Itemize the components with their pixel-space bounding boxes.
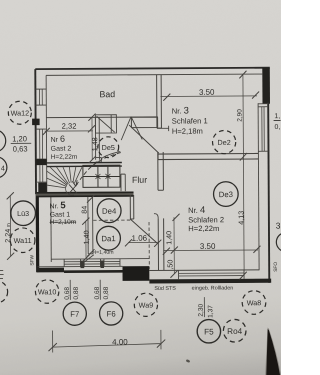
- svg-text:Wa9: Wa9: [139, 301, 154, 310]
- svg-text:4,13: 4,13: [236, 211, 245, 225]
- wall bottom-left middle line: [37, 265, 122, 268]
- wall pier black left 3: [38, 183, 47, 194]
- window right Schlafen1 glazing: [262, 107, 264, 152]
- wall left outer Gast1 thick: [36, 194, 40, 272]
- wall pier black left 1: [32, 119, 40, 126]
- svg-text:1,20: 1,20: [12, 134, 27, 143]
- svg-text:2,90: 2,90: [237, 109, 244, 122]
- circle F5: [197, 320, 221, 344]
- window left Gast2 glazing: [40, 129, 43, 159]
- chimney box: [83, 165, 120, 187]
- shaft box Bad: [95, 115, 116, 133]
- wall step black block bottom middle: [122, 266, 149, 281]
- dimension 1,40-50 chain: [173, 217, 175, 273]
- fraction line right: [274, 120, 281, 122]
- circle F6: [100, 302, 123, 325]
- wall Gast1 right: [88, 197, 93, 254]
- stair walk line dashed: [76, 153, 121, 187]
- svg-text:1,40: 1,40: [82, 230, 91, 244]
- svg-text:1,40: 1,40: [164, 231, 173, 245]
- wall bottom-right outer thick: [149, 279, 271, 284]
- window bottom Schlafen2 glazing: [179, 273, 245, 276]
- svg-text:0,88: 0,88: [103, 286, 110, 299]
- wall top-right corner block: [262, 68, 270, 104]
- svg-text:Süd STS: Süd STS: [154, 286, 176, 292]
- dimension 1,48 line: [91, 117, 93, 160]
- svg-text:,50: ,50: [165, 260, 174, 270]
- wall Schlafen2 left upper: [158, 152, 164, 190]
- tick right chain bottom: [240, 272, 247, 280]
- wall left inner Gast1: [50, 197, 52, 262]
- circle Wa9 dashed: [134, 293, 157, 316]
- circle Ro4 dashed: [223, 319, 246, 342]
- dimension 1.06 line: [128, 241, 158, 243]
- svg-text:H=2,22m: H=2,22m: [188, 224, 219, 233]
- circle De2 dashed: [212, 130, 235, 153]
- svg-text:Gast 2: Gast 2: [51, 146, 72, 153]
- svg-text:3.50: 3.50: [200, 242, 216, 251]
- svg-text:SFO: SFO: [273, 262, 279, 272]
- svg-text:3.50: 3.50: [199, 88, 215, 97]
- svg-text:F7: F7: [70, 310, 79, 319]
- wall right outer: [268, 102, 269, 283]
- window bottom Gast1 glazing: [64, 261, 120, 264]
- fraction line left: [11, 142, 31, 144]
- circle De5 dashed: [98, 137, 119, 158]
- door leaf Bad left: [121, 117, 131, 141]
- svg-text:Nr. 4: Nr. 4: [188, 205, 205, 216]
- tick right chain top: [239, 71, 246, 79]
- niche dashed lintel: [93, 219, 130, 221]
- circle Lue3: [11, 201, 36, 226]
- wall stair top band: [47, 163, 122, 167]
- svg-text:0,88: 0,88: [73, 287, 80, 300]
- chimney tick marks: [95, 174, 110, 179]
- window mullion blocks: [80, 261, 84, 269]
- wall top outer: [35, 68, 269, 69]
- leader H140 tick: [84, 255, 93, 262]
- wall Schlafen1-Schlafen2: [158, 153, 258, 159]
- niche diagonal: [130, 219, 158, 244]
- dimension 2,32 line: [45, 130, 93, 132]
- svg-text:Wa12: Wa12: [11, 108, 30, 117]
- circle Wa10 dashed: [35, 280, 59, 304]
- door leaf Schlafen1: [129, 125, 159, 153]
- circle Wa8 dashed: [242, 291, 266, 315]
- svg-text:De2: De2: [218, 138, 231, 147]
- svg-text:2,30: 2,30: [198, 303, 205, 316]
- wall Bad-Schlafen1: [157, 75, 162, 128]
- photo artifact dark wedge bottom right: [265, 328, 281, 375]
- circle F7: [63, 302, 86, 325]
- dashed vertical step edge: [148, 222, 150, 269]
- tick right chain mid: [240, 153, 247, 161]
- svg-text:1,37: 1,37: [207, 305, 214, 318]
- svg-text:Flur: Flur: [132, 175, 147, 185]
- svg-text:1.06: 1.06: [131, 234, 147, 243]
- partial circle right edge: [276, 233, 295, 252]
- circle partial bottom-left dashed: [0, 281, 8, 303]
- svg-text:Bad: Bad: [99, 89, 115, 99]
- wall right of chimney: [121, 174, 125, 191]
- wall top inner: [46, 74, 262, 75]
- reference circles: [0, 100, 296, 345]
- window left Bad glazing: [39, 89, 42, 105]
- svg-text:0,: 0,: [274, 124, 280, 131]
- wall Bad bottom: [46, 116, 157, 119]
- room and dimension texts: [2, 87, 282, 347]
- svg-text:Schlafen 1: Schlafen 1: [172, 116, 208, 125]
- svg-text:84: 84: [80, 206, 89, 214]
- svg-text:Lü3: Lü3: [17, 209, 29, 218]
- svg-text:1,: 1,: [274, 113, 280, 120]
- door arc Gast2: [101, 152, 120, 159]
- dimension right chain line: [6, 71, 261, 353]
- window right Schlafen1 frame: [258, 104, 268, 152]
- wall band Gast1-niche top: [36, 192, 134, 197]
- wall left inner upper: [45, 75, 48, 192]
- svg-text:2,32: 2,32: [62, 122, 77, 131]
- wall left outer upper: [34, 69, 37, 194]
- wall right inner: [258, 103, 259, 270]
- circle Da1: [97, 226, 121, 250]
- wall Gast2 right: [95, 117, 99, 160]
- stair fan rays: [47, 167, 82, 188]
- svg-text:Da1: Da1: [101, 234, 115, 243]
- dimension 1,40 niche line: [85, 221, 87, 258]
- window left Gast2 frame: [36, 129, 47, 159]
- wall Flur-Schlafen1 segment: [131, 117, 158, 128]
- svg-text:4: 4: [1, 164, 5, 173]
- circle partial left 4: [0, 157, 7, 178]
- wall niche right: [130, 195, 134, 219]
- circle partial left 1: [0, 130, 6, 152]
- circle De3: [213, 182, 238, 207]
- wall Schlafen2 left lower: [158, 218, 164, 270]
- svg-text:4.00: 4.00: [112, 338, 128, 347]
- svg-text:F6: F6: [107, 309, 116, 318]
- circle Wa12 dashed: [8, 101, 31, 124]
- svg-text:eingeb. Rollladen: eingeb. Rollladen: [192, 285, 234, 291]
- circle De4: [97, 199, 121, 223]
- door jamb stub Schlafen1: [157, 126, 169, 131]
- svg-text:De3: De3: [219, 190, 233, 199]
- svg-text:H=2,22m: H=2,22m: [51, 154, 78, 161]
- window bottom Gast1 frames: [64, 259, 120, 267]
- circle Wa11 dashed: [10, 228, 35, 253]
- wall bottom-right inner line: [149, 269, 259, 272]
- svg-text:Nr. 3: Nr. 3: [172, 106, 189, 117]
- svg-text:H=2,18m: H=2,18m: [172, 127, 203, 136]
- wall bottom-left inner line: [51, 258, 149, 261]
- wall bottom-left outer thick: [36, 268, 64, 273]
- svg-text:De4: De4: [102, 207, 117, 216]
- svg-text:Gast 1: Gast 1: [50, 212, 71, 219]
- stair hub arc: [66, 185, 74, 195]
- svg-text:H=1,40m: H=1,40m: [92, 250, 113, 256]
- svg-text:Ro4: Ro4: [227, 327, 243, 336]
- svg-text:Wa10: Wa10: [38, 287, 57, 296]
- dimension 4.00 line: [53, 330, 161, 353]
- svg-text:3: 3: [276, 221, 281, 231]
- wall pier black left 2: [36, 159, 47, 165]
- svg-text:SFW: SFW: [29, 255, 35, 266]
- dimension left 2,24 line: [9, 196, 11, 256]
- svg-text:Wa8: Wa8: [247, 298, 262, 307]
- door leaf Bad right: [131, 116, 142, 139]
- photo edge marks left: [0, 271, 4, 279]
- wall Schlafen2 jamb hook: [154, 214, 158, 219]
- svg-text:De5: De5: [102, 143, 115, 152]
- dimension 3.50 top line: [160, 95, 257, 98]
- window left Bad frame: [35, 89, 46, 105]
- svg-text:Wa11: Wa11: [14, 236, 32, 245]
- svg-text:0,63: 0,63: [13, 144, 28, 153]
- stair walk arrow: [69, 180, 78, 193]
- window left stair glazing: [36, 165, 47, 182]
- dimension 84 ticks: [87, 195, 95, 256]
- dimension 3.50 bottom line: [163, 249, 258, 252]
- svg-text:H=2,10m: H=2,10m: [50, 219, 77, 226]
- window bottom Schlafen2 frames: [179, 270, 245, 279]
- door stub Gast2: [96, 157, 102, 162]
- svg-text:F5: F5: [204, 327, 214, 336]
- photo speck: [186, 359, 191, 363]
